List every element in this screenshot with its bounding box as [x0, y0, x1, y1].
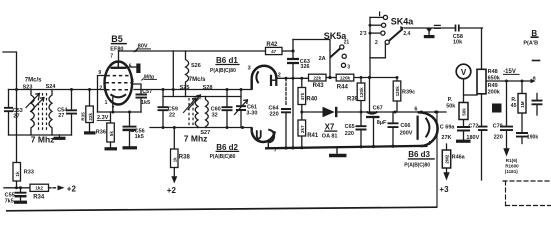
svg-text:SK4a: SK4a [391, 17, 415, 27]
svg-text:R39c: R39c [402, 89, 415, 95]
svg-text:7 Mhz: 7 Mhz [31, 134, 55, 144]
svg-text:R1(6): R1(6) [506, 158, 518, 163]
svg-text:200k: 200k [488, 89, 501, 95]
svg-text:7k5: 7k5 [5, 198, 14, 204]
svg-text:C67: C67 [373, 105, 383, 111]
svg-text:326: 326 [300, 64, 309, 70]
svg-text:R34: R34 [33, 194, 45, 200]
svg-text:C72: C72 [468, 124, 478, 130]
svg-text:1: 1 [105, 100, 108, 106]
svg-text:32: 32 [212, 112, 218, 118]
svg-text:S26: S26 [191, 63, 201, 69]
svg-text:+2: +2 [167, 186, 177, 195]
svg-text:B6 d3: B6 d3 [408, 150, 430, 159]
svg-text:200V: 200V [400, 130, 413, 136]
svg-text:C61: C61 [247, 104, 257, 110]
svg-text:2k7: 2k7 [300, 125, 305, 133]
svg-text:B5: B5 [111, 34, 123, 44]
svg-text:2: 2 [375, 40, 378, 46]
svg-text:(1181): (1181) [505, 169, 518, 174]
svg-text:220: 220 [270, 112, 279, 118]
svg-text:P.: P. [448, 97, 453, 103]
svg-text:R46a: R46a [452, 155, 466, 161]
svg-text:R41: R41 [307, 133, 319, 139]
svg-text:50k: 50k [446, 103, 456, 109]
svg-text:120k: 120k [340, 75, 351, 80]
svg-text:47k: 47k [300, 92, 305, 100]
svg-text:R49: R49 [488, 83, 498, 89]
svg-text:45: 45 [511, 103, 517, 109]
svg-text:R39: R39 [347, 97, 359, 103]
svg-text:220: 220 [345, 131, 354, 137]
svg-text:S25: S25 [180, 85, 190, 91]
svg-text:7 Mhz: 7 Mhz [184, 133, 208, 143]
svg-text:7Mc/s: 7Mc/s [25, 77, 42, 83]
svg-text:R35: R35 [80, 112, 85, 121]
svg-text:P(A|B|C)80: P(A|B|C)80 [210, 154, 236, 160]
svg-text:+2: +2 [67, 185, 77, 194]
svg-text:47: 47 [271, 49, 277, 54]
svg-text:3: 3 [347, 65, 350, 71]
svg-text:+3: +3 [439, 185, 449, 194]
svg-text:V: V [461, 68, 467, 77]
svg-text:S24: S24 [46, 84, 57, 90]
svg-text:B6 d2: B6 d2 [216, 143, 238, 152]
svg-text:21: 21 [344, 39, 350, 45]
svg-text:1M: 1M [520, 101, 525, 108]
svg-text:EF80: EF80 [110, 46, 123, 52]
svg-text:C57: C57 [142, 89, 152, 95]
svg-text:3: 3 [248, 65, 251, 71]
svg-text:2: 2 [99, 85, 102, 91]
svg-text:7: 7 [274, 147, 277, 153]
svg-text:R36: R36 [96, 129, 106, 135]
svg-text:8: 8 [131, 79, 134, 85]
svg-text:22k: 22k [313, 75, 321, 80]
svg-text:3-30: 3-30 [246, 111, 257, 117]
svg-text:120k: 120k [395, 86, 400, 97]
svg-text:2: 2 [278, 72, 281, 78]
svg-text:27K: 27K [441, 135, 451, 141]
svg-text:R1600: R1600 [505, 163, 519, 168]
svg-text:C 69a: C 69a [440, 125, 456, 131]
svg-text:220: 220 [494, 134, 503, 140]
svg-text:22: 22 [169, 113, 175, 119]
svg-text:R.: R. [511, 97, 517, 103]
svg-text:C65: C65 [345, 124, 355, 130]
svg-text:9: 9 [98, 70, 101, 76]
svg-text:2M2: 2M2 [445, 154, 450, 163]
svg-text:R33: R33 [24, 169, 34, 175]
svg-text:650k: 650k [488, 75, 501, 81]
svg-text:6: 6 [129, 63, 132, 69]
svg-text:180V: 180V [466, 135, 479, 141]
svg-text:1k: 1k [173, 157, 178, 163]
svg-text:27: 27 [13, 113, 19, 119]
svg-text:S28: S28 [203, 85, 213, 91]
svg-text:1k: 1k [15, 171, 20, 177]
svg-text:R42: R42 [266, 42, 278, 48]
svg-text:B6 d1: B6 d1 [216, 56, 238, 65]
svg-text:27: 27 [58, 113, 64, 119]
svg-text:2'3: 2'3 [360, 31, 367, 37]
svg-text:R40: R40 [306, 96, 318, 102]
svg-text:C70: C70 [493, 124, 503, 130]
svg-text:P(A|B|C)80: P(A|B|C)80 [210, 68, 236, 74]
svg-text:C66: C66 [400, 123, 410, 129]
svg-text:10k: 10k [453, 39, 463, 45]
svg-text:R43: R43 [313, 83, 325, 89]
svg-text:R48: R48 [488, 69, 498, 75]
svg-text:P(A'B: P(A'B [523, 41, 538, 47]
svg-text:1k5: 1k5 [135, 134, 144, 140]
svg-text:5k: 5k [109, 131, 114, 137]
svg-text:7: 7 [112, 106, 115, 112]
svg-text:22k: 22k [88, 112, 93, 120]
svg-text:190k: 190k [527, 135, 538, 141]
svg-text:7: 7 [110, 53, 113, 59]
svg-text:OA 81: OA 81 [322, 133, 338, 139]
svg-text:7Mc/s: 7Mc/s [189, 77, 206, 83]
svg-text:2A: 2A [319, 56, 326, 62]
svg-text:X7: X7 [325, 123, 335, 132]
svg-text:120k: 120k [359, 87, 364, 98]
svg-text:1k2: 1k2 [35, 186, 43, 191]
svg-text:2,4: 2,4 [403, 31, 410, 37]
svg-text:1k5: 1k5 [141, 100, 150, 106]
svg-text:8µF: 8µF [377, 120, 387, 126]
svg-text:P(A|B|C)80: P(A|B|C)80 [404, 163, 430, 169]
svg-text:50k: 50k [462, 108, 467, 116]
svg-text:R38: R38 [179, 154, 191, 160]
svg-text:6: 6 [414, 107, 417, 113]
svg-text:R44: R44 [337, 85, 349, 91]
svg-text:S23: S23 [23, 84, 33, 90]
svg-text:7: 7 [429, 141, 432, 147]
